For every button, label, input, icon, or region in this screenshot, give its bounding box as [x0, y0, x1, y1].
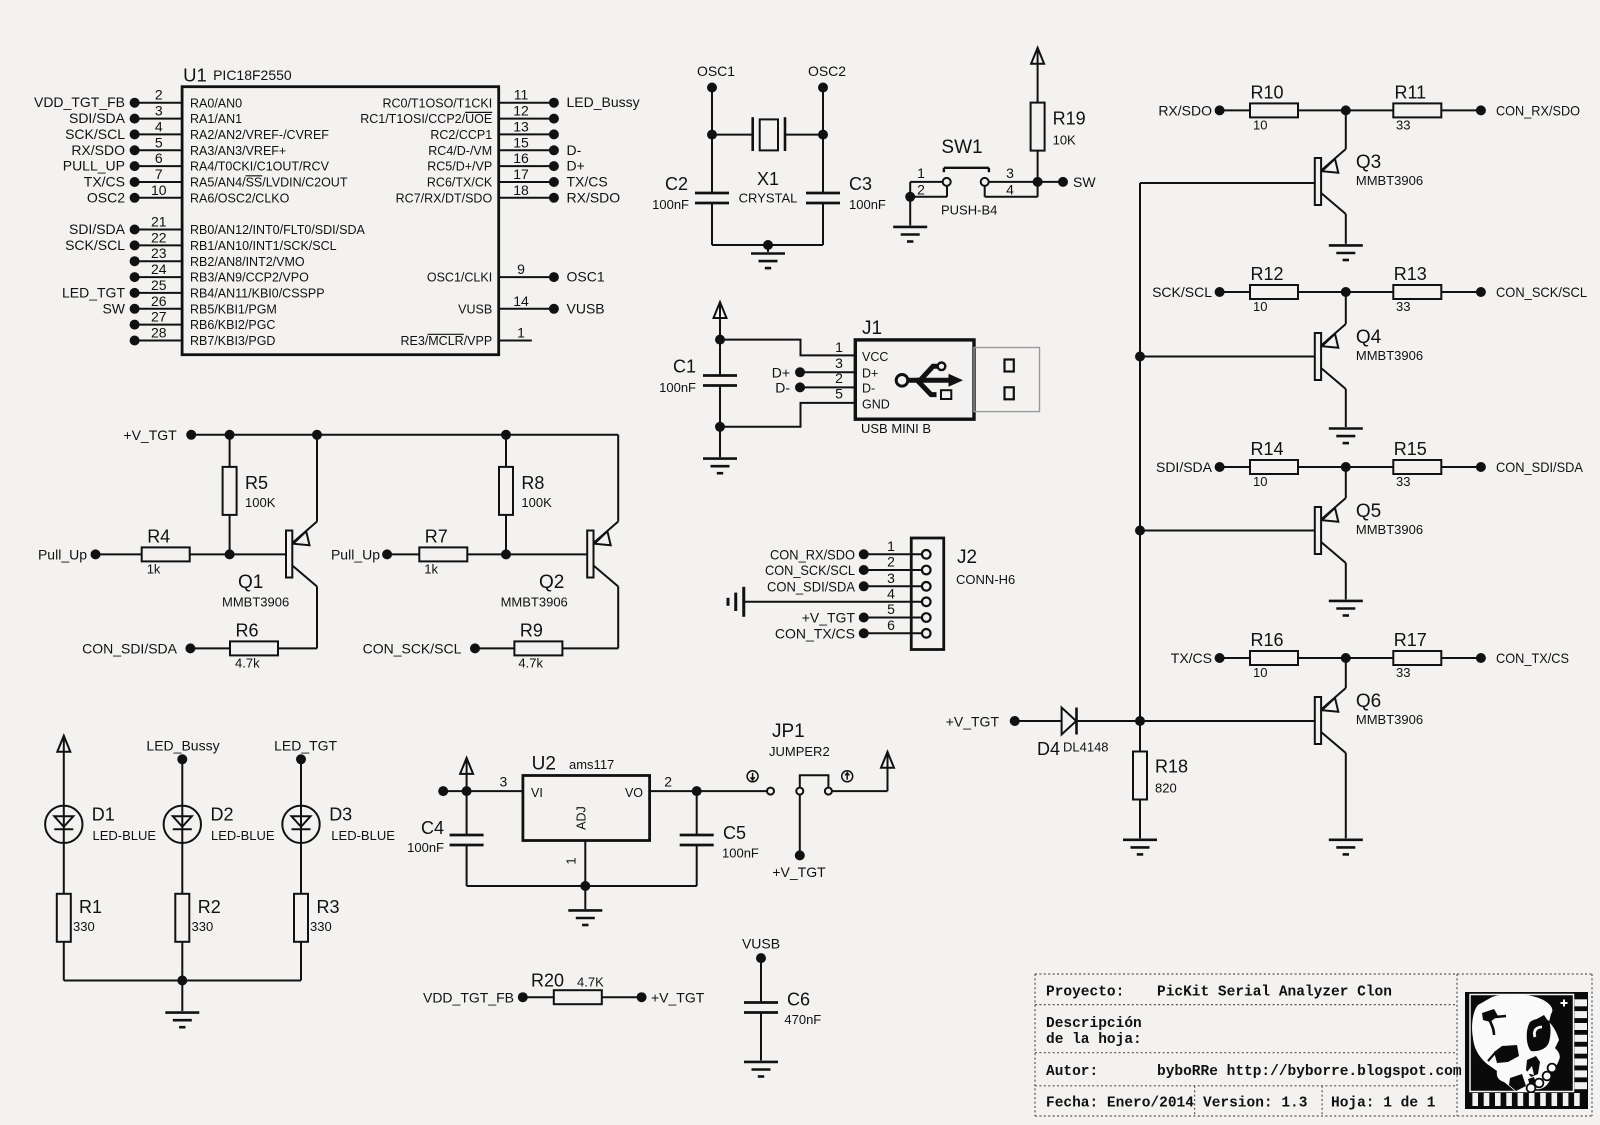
svg-text:LED_TGT: LED_TGT [62, 284, 125, 300]
svg-text:1k: 1k [147, 561, 161, 576]
svg-text:D2: D2 [211, 805, 234, 825]
svg-text:LED-BLUE: LED-BLUE [93, 828, 157, 843]
svg-text:RA4/T0CKI/C1OUT/RCV: RA4/T0CKI/C1OUT/RCV [190, 160, 330, 174]
svg-text:C6: C6 [787, 990, 810, 1010]
svg-text:VDD_TGT_FB: VDD_TGT_FB [34, 94, 125, 110]
svg-text:OSC2: OSC2 [87, 189, 125, 205]
svg-text:23: 23 [151, 245, 167, 261]
svg-text:VO: VO [625, 786, 643, 800]
svg-text:3: 3 [500, 774, 508, 790]
svg-text:RB1/AN10/INT1/SCK/SCL: RB1/AN10/INT1/SCK/SCL [190, 239, 337, 253]
svg-text:1k: 1k [424, 561, 438, 576]
svg-text:VI: VI [531, 786, 543, 800]
svg-text:MMBT3906: MMBT3906 [222, 595, 289, 610]
svg-text:U1: U1 [183, 65, 207, 86]
svg-text:PULL_UP: PULL_UP [63, 158, 125, 174]
svg-text:5: 5 [155, 134, 163, 150]
svg-text:26: 26 [151, 293, 167, 309]
svg-text:R1: R1 [79, 897, 102, 917]
svg-text:C5: C5 [723, 823, 746, 843]
svg-text:SCK/SCL: SCK/SCL [65, 126, 125, 142]
svg-text:R16: R16 [1250, 630, 1283, 650]
svg-text:SW: SW [1073, 174, 1096, 190]
svg-text:RA2/AN2/VREF-/CVREF: RA2/AN2/VREF-/CVREF [190, 128, 329, 142]
svg-text:RB0/AN12/INT0/FLT0/SDI/SDA: RB0/AN12/INT0/FLT0/SDI/SDA [190, 223, 365, 237]
svg-text:JP1: JP1 [772, 721, 805, 742]
svg-text:1: 1 [917, 165, 925, 181]
svg-text:CON_SDI/SDA: CON_SDI/SDA [82, 640, 178, 656]
svg-text:Q4: Q4 [1356, 327, 1382, 348]
svg-text:RB2/AN8/INT2/VMO: RB2/AN8/INT2/VMO [190, 255, 305, 269]
svg-text:100K: 100K [521, 495, 552, 510]
svg-text:100nF: 100nF [407, 840, 444, 855]
svg-text:ams117: ams117 [569, 757, 614, 772]
svg-text:MMBT3906: MMBT3906 [1356, 712, 1423, 727]
svg-text:9: 9 [517, 261, 525, 277]
svg-text:2: 2 [887, 554, 895, 570]
svg-text:PIC18F2550: PIC18F2550 [213, 67, 292, 83]
svg-text:D-: D- [775, 379, 790, 395]
svg-text:+V_TGT: +V_TGT [802, 610, 856, 626]
svg-text:RC7/RX/DT/SDO: RC7/RX/DT/SDO [396, 191, 493, 205]
svg-text:CON_TX/CS: CON_TX/CS [775, 625, 855, 641]
svg-text:100K: 100K [245, 495, 276, 510]
svg-text:SCK/SCL: SCK/SCL [1152, 284, 1212, 300]
svg-text:LED_Bussy: LED_Bussy [146, 738, 219, 754]
svg-text:+V_TGT: +V_TGT [946, 714, 1000, 730]
svg-text:R8: R8 [521, 473, 544, 493]
svg-text:R13: R13 [1394, 264, 1427, 284]
svg-text:D-: D- [862, 381, 875, 395]
svg-text:Q2: Q2 [539, 572, 564, 593]
svg-text:R3: R3 [317, 897, 340, 917]
svg-text:TX/CS: TX/CS [567, 174, 608, 190]
svg-text:RX/SDO: RX/SDO [71, 142, 125, 158]
svg-text:RE3/MCLR/VPP: RE3/MCLR/VPP [400, 334, 492, 348]
svg-text:SCK/SCL: SCK/SCL [65, 237, 125, 253]
svg-text:RC4/D-/VM: RC4/D-/VM [428, 144, 492, 158]
svg-text:SW1: SW1 [941, 137, 982, 158]
svg-text:330: 330 [73, 919, 95, 934]
svg-text:1: 1 [835, 339, 843, 355]
svg-text:5: 5 [835, 385, 843, 401]
svg-text:byboRRe http://byborre.blogspo: byboRRe http://byborre.blogspot.com [1157, 1064, 1462, 1080]
svg-text:J1: J1 [862, 318, 882, 339]
svg-text:MMBT3906: MMBT3906 [1356, 173, 1423, 188]
svg-text:R20: R20 [531, 971, 564, 991]
svg-text:R12: R12 [1250, 264, 1283, 284]
svg-text:24: 24 [151, 261, 167, 277]
svg-text:C4: C4 [421, 818, 444, 838]
svg-text:RB3/AN9/CCP2/VPO: RB3/AN9/CCP2/VPO [190, 271, 309, 285]
svg-text:Q1: Q1 [238, 572, 263, 593]
svg-text:CON_RX/SDO: CON_RX/SDO [1496, 102, 1580, 118]
svg-text:RC5/D+/VP: RC5/D+/VP [427, 160, 492, 174]
svg-text:22: 22 [151, 229, 167, 245]
svg-text:CON_SCK/SCL: CON_SCK/SCL [765, 562, 855, 578]
svg-text:330: 330 [192, 919, 214, 934]
svg-text:J2: J2 [957, 547, 977, 568]
svg-text:6: 6 [887, 617, 895, 633]
svg-text:R10: R10 [1250, 82, 1283, 102]
svg-text:1: 1 [887, 538, 895, 554]
svg-text:R11: R11 [1394, 82, 1426, 102]
svg-text:VUSB: VUSB [458, 302, 492, 316]
svg-text:100nF: 100nF [722, 846, 759, 861]
svg-text:D3: D3 [329, 805, 352, 825]
svg-text:Descripción: Descripción [1046, 1016, 1142, 1032]
svg-text:LED-BLUE: LED-BLUE [331, 828, 395, 843]
svg-text:17: 17 [513, 166, 529, 182]
svg-text:R15: R15 [1394, 439, 1427, 459]
svg-text:LED-BLUE: LED-BLUE [211, 828, 275, 843]
svg-text:C2: C2 [665, 174, 688, 194]
svg-text:MMBT3906: MMBT3906 [1356, 522, 1423, 537]
svg-text:Hoja: 1 de 1: Hoja: 1 de 1 [1331, 1096, 1436, 1112]
svg-text:3: 3 [1006, 165, 1014, 181]
svg-text:VCC: VCC [862, 350, 888, 364]
svg-text:10K: 10K [1053, 133, 1076, 148]
svg-text:Fecha: Enero/2014: Fecha: Enero/2014 [1046, 1096, 1194, 1112]
svg-text:CON_SCK/SCL: CON_SCK/SCL [363, 640, 462, 656]
svg-text:RX/SDO: RX/SDO [1158, 102, 1212, 118]
svg-text:SDI/SDA: SDI/SDA [1156, 459, 1213, 475]
svg-text:CON_SDI/SDA: CON_SDI/SDA [767, 578, 856, 594]
svg-text:Autor:: Autor: [1046, 1064, 1098, 1080]
svg-text:Proyecto:: Proyecto: [1046, 985, 1124, 1001]
svg-text:4: 4 [887, 585, 895, 601]
svg-text:OSC1: OSC1 [697, 63, 735, 79]
svg-text:4.7k: 4.7k [518, 655, 543, 670]
svg-text:USB MINI B: USB MINI B [861, 421, 931, 436]
svg-text:CONN-H6: CONN-H6 [956, 572, 1015, 587]
svg-text:3: 3 [155, 103, 163, 119]
svg-text:33: 33 [1396, 299, 1410, 314]
svg-text:R14: R14 [1250, 439, 1283, 459]
svg-text:10: 10 [1253, 299, 1267, 314]
svg-text:Q3: Q3 [1356, 152, 1381, 173]
svg-text:RA3/AN3/VREF+: RA3/AN3/VREF+ [190, 144, 286, 158]
svg-text:10: 10 [1253, 117, 1267, 132]
svg-text:1: 1 [517, 325, 525, 341]
svg-text:RC2/CCP1: RC2/CCP1 [430, 128, 492, 142]
svg-text:+V_TGT: +V_TGT [772, 864, 826, 880]
svg-text:CON_TX/CS: CON_TX/CS [1496, 650, 1569, 666]
svg-text:11: 11 [514, 87, 529, 103]
svg-text:27: 27 [151, 309, 167, 325]
svg-text:16: 16 [513, 150, 529, 166]
svg-text:R2: R2 [198, 897, 221, 917]
svg-text:RB5/KBI1/PGM: RB5/KBI1/PGM [190, 302, 277, 316]
svg-text:12: 12 [513, 103, 529, 119]
svg-text:21: 21 [151, 214, 167, 230]
svg-text:SDI/SDA: SDI/SDA [69, 221, 126, 237]
svg-text:4: 4 [1006, 181, 1014, 197]
svg-text:R7: R7 [425, 526, 448, 546]
svg-text:PicKit Serial Analyzer Clon: PicKit Serial Analyzer Clon [1157, 985, 1392, 1001]
svg-text:Q5: Q5 [1356, 501, 1381, 522]
svg-text:OSC1: OSC1 [567, 269, 605, 285]
svg-text:RB7/KBI3/PGD: RB7/KBI3/PGD [190, 334, 275, 348]
svg-text:2: 2 [917, 181, 925, 197]
svg-text:SW: SW [102, 300, 125, 316]
svg-text:4.7k: 4.7k [235, 655, 260, 670]
svg-text:820: 820 [1155, 781, 1177, 796]
svg-text:MMBT3906: MMBT3906 [501, 595, 568, 610]
svg-text:7: 7 [155, 166, 163, 182]
svg-text:R9: R9 [520, 620, 543, 640]
svg-text:Q6: Q6 [1356, 691, 1381, 712]
svg-text:CRYSTAL: CRYSTAL [739, 191, 798, 206]
svg-text:100nF: 100nF [652, 197, 689, 212]
svg-text:SDI/SDA: SDI/SDA [69, 110, 126, 126]
svg-text:D4: D4 [1037, 739, 1060, 759]
svg-text:470nF: 470nF [784, 1012, 821, 1027]
svg-text:PUSH-B4: PUSH-B4 [941, 203, 997, 218]
svg-text:RB4/AN11/KBI0/CSSPP: RB4/AN11/KBI0/CSSPP [190, 287, 325, 301]
svg-text:C1: C1 [673, 357, 696, 377]
svg-text:100nF: 100nF [659, 380, 696, 395]
svg-text:CON_SCK/SCL: CON_SCK/SCL [1496, 284, 1587, 300]
svg-text:Pull_Up: Pull_Up [38, 546, 87, 562]
svg-text:OSC2: OSC2 [808, 63, 846, 79]
svg-text:D1: D1 [92, 805, 115, 825]
svg-text:13: 13 [513, 118, 529, 134]
svg-text:U2: U2 [532, 754, 556, 775]
svg-text:100nF: 100nF [849, 197, 886, 212]
svg-text:RB6/KBI2/PGC: RB6/KBI2/PGC [190, 318, 275, 332]
svg-text:R18: R18 [1155, 757, 1188, 777]
svg-text:33: 33 [1396, 474, 1410, 489]
svg-text:VUSB: VUSB [742, 936, 780, 952]
svg-text:LED_TGT: LED_TGT [274, 738, 337, 754]
svg-text:10: 10 [1253, 665, 1267, 680]
svg-text:2: 2 [835, 370, 843, 386]
svg-text:10: 10 [151, 182, 167, 198]
svg-text:DL4148: DL4148 [1063, 740, 1109, 755]
svg-text:VDD_TGT_FB: VDD_TGT_FB [423, 990, 514, 1006]
svg-text:+V_TGT: +V_TGT [123, 427, 177, 443]
svg-text:330: 330 [310, 919, 332, 934]
svg-text:LED_Bussy: LED_Bussy [567, 94, 640, 110]
svg-text:D+: D+ [567, 158, 585, 174]
svg-text:4.7K: 4.7K [577, 975, 604, 990]
svg-text:28: 28 [151, 325, 167, 341]
svg-text:RA6/OSC2/CLKO: RA6/OSC2/CLKO [190, 191, 290, 205]
svg-text:3: 3 [835, 355, 843, 371]
svg-text:ADJ: ADJ [574, 806, 588, 830]
svg-text:33: 33 [1396, 117, 1410, 132]
svg-text:RC0/T1OSO/T1CKI: RC0/T1OSO/T1CKI [382, 96, 492, 110]
svg-text:CON_SDI/SDA: CON_SDI/SDA [1496, 459, 1584, 475]
svg-text:25: 25 [151, 277, 167, 293]
svg-text:de la hoja:: de la hoja: [1046, 1032, 1142, 1048]
svg-text:Version: 1.3: Version: 1.3 [1203, 1096, 1307, 1112]
svg-text:3: 3 [887, 570, 895, 586]
svg-text:33: 33 [1396, 665, 1410, 680]
svg-text:X1: X1 [757, 169, 779, 189]
svg-text:JUMPER2: JUMPER2 [769, 744, 830, 759]
svg-text:5: 5 [887, 601, 895, 617]
svg-text:TX/CS: TX/CS [1171, 650, 1212, 666]
svg-text:+V_TGT: +V_TGT [651, 990, 705, 1006]
svg-text:6: 6 [155, 150, 163, 166]
svg-text:R4: R4 [147, 526, 170, 546]
svg-text:Pull_Up: Pull_Up [331, 546, 380, 562]
svg-text:14: 14 [513, 293, 529, 309]
svg-text:R19: R19 [1053, 109, 1086, 129]
svg-text:RA5/AN4/SS/LVDIN/C2OUT: RA5/AN4/SS/LVDIN/C2OUT [190, 176, 348, 190]
svg-text:4: 4 [155, 118, 163, 134]
svg-text:D+: D+ [862, 366, 878, 380]
svg-text:RC6/TX/CK: RC6/TX/CK [427, 176, 493, 190]
svg-text:R17: R17 [1394, 630, 1427, 650]
svg-text:VUSB: VUSB [567, 300, 605, 316]
svg-text:OSC1/CLKI: OSC1/CLKI [427, 271, 492, 285]
svg-text:GND: GND [862, 397, 890, 411]
svg-text:15: 15 [513, 134, 529, 150]
svg-text:RC1/T1OSI/CCP2/UOE: RC1/T1OSI/CCP2/UOE [360, 112, 492, 126]
svg-text:CON_RX/SDO: CON_RX/SDO [770, 546, 855, 562]
svg-text:D+: D+ [772, 364, 790, 380]
svg-text:D-: D- [567, 142, 582, 158]
svg-text:R6: R6 [235, 620, 258, 640]
svg-text:2: 2 [155, 87, 163, 103]
svg-text:RA1/AN1: RA1/AN1 [190, 112, 242, 126]
svg-text:RA0/AN0: RA0/AN0 [190, 96, 242, 110]
svg-text:R5: R5 [245, 473, 268, 493]
svg-text:C3: C3 [849, 174, 872, 194]
svg-text:MMBT3906: MMBT3906 [1356, 348, 1423, 363]
svg-text:18: 18 [513, 182, 529, 198]
svg-text:1: 1 [564, 857, 579, 864]
svg-text:RX/SDO: RX/SDO [567, 189, 621, 205]
svg-text:TX/CS: TX/CS [84, 174, 125, 190]
svg-text:10: 10 [1253, 474, 1267, 489]
svg-text:2: 2 [664, 774, 672, 790]
